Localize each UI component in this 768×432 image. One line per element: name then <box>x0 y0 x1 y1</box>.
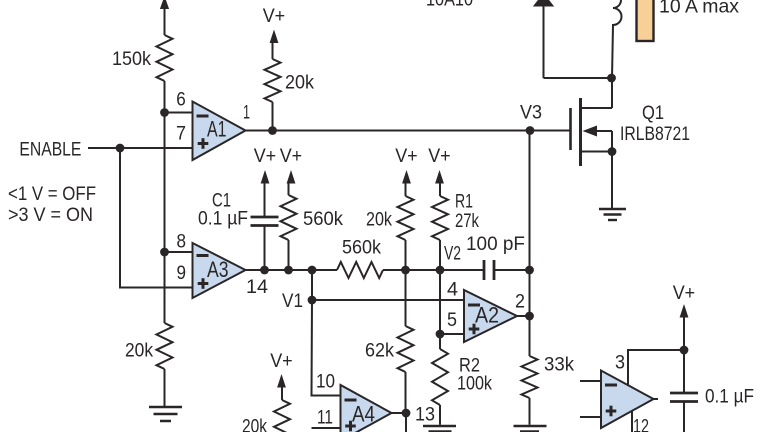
svg-text:V+: V+ <box>280 145 303 167</box>
svg-text:20k: 20k <box>242 416 267 432</box>
svg-text:7: 7 <box>176 123 186 145</box>
svg-text:20k: 20k <box>285 72 314 94</box>
svg-text:IRLB8721: IRLB8721 <box>620 123 690 145</box>
svg-text:V+: V+ <box>673 282 696 304</box>
svg-text:10A10: 10A10 <box>426 0 473 11</box>
svg-text:10: 10 <box>316 371 335 393</box>
svg-text:13: 13 <box>415 404 435 426</box>
svg-text:560k: 560k <box>303 208 343 230</box>
svg-text:A3: A3 <box>207 257 229 282</box>
svg-text:V+: V+ <box>428 145 451 167</box>
svg-text:ENABLE: ENABLE <box>19 138 81 160</box>
svg-text:150k: 150k <box>112 48 151 70</box>
svg-text:V2: V2 <box>444 243 461 265</box>
svg-text:0.1 µF: 0.1 µF <box>198 208 248 230</box>
svg-text:14: 14 <box>246 276 268 298</box>
svg-text:5: 5 <box>447 309 457 331</box>
svg-text:33k: 33k <box>544 354 574 376</box>
svg-text:12: 12 <box>633 416 649 432</box>
svg-text:20k: 20k <box>125 340 153 362</box>
svg-text:V+: V+ <box>395 145 418 167</box>
svg-text:Q1: Q1 <box>642 102 664 124</box>
svg-text:V1: V1 <box>282 290 303 312</box>
svg-text:V+: V+ <box>263 5 286 27</box>
svg-text:27k: 27k <box>455 210 479 232</box>
svg-text:A1: A1 <box>207 117 227 142</box>
svg-text:<1 V = OFF: <1 V = OFF <box>8 183 96 205</box>
svg-text:A4: A4 <box>352 402 375 427</box>
svg-text:100k: 100k <box>457 373 492 395</box>
svg-text:V3: V3 <box>520 102 542 124</box>
svg-text:3: 3 <box>615 352 625 374</box>
svg-text:100 pF: 100 pF <box>466 233 525 255</box>
svg-text:2: 2 <box>515 291 525 313</box>
svg-text:4: 4 <box>447 279 458 301</box>
svg-text:20k: 20k <box>366 209 392 231</box>
svg-text:>3 V = ON: >3 V = ON <box>8 204 93 226</box>
svg-text:A2: A2 <box>475 303 499 328</box>
svg-text:1: 1 <box>243 102 250 124</box>
svg-text:V+: V+ <box>270 350 293 372</box>
svg-text:6: 6 <box>176 88 186 110</box>
svg-text:0.1 µF: 0.1 µF <box>705 386 754 408</box>
svg-text:11: 11 <box>317 407 333 429</box>
svg-text:9: 9 <box>177 262 187 284</box>
svg-text:62k: 62k <box>365 340 394 362</box>
svg-text:8: 8 <box>177 231 187 253</box>
svg-text:V+: V+ <box>254 145 277 167</box>
svg-text:560k: 560k <box>342 237 381 259</box>
svg-text:10 A max: 10 A max <box>659 0 739 18</box>
